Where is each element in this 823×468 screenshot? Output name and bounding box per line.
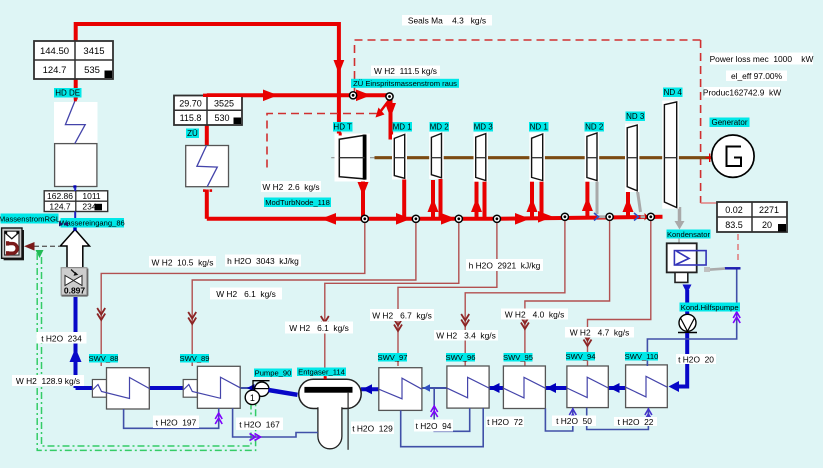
node junction reheat node1 [350, 92, 357, 99]
label Produc [703, 87, 781, 98]
label ZÜ [186, 129, 199, 139]
svg-text:t H2O 22: t H2O 22 [618, 417, 654, 427]
svg-text:SWV_94: SWV_94 [566, 352, 596, 361]
svg-text:Wassereingang_86: Wassereingang_86 [60, 219, 125, 228]
svg-text:ND 2: ND 2 [585, 123, 604, 132]
turbine ND 3 [625, 124, 639, 192]
label SWV_97 [378, 353, 408, 362]
svg-text:t H2O 50: t H2O 50 [556, 416, 592, 426]
arrow hot reheat 1 [263, 90, 278, 102]
label el_eff [726, 71, 787, 82]
svg-text:el_eff 97.00%: el_eff 97.00% [731, 71, 783, 81]
wire: vent line SWV_110 to condenser junction [647, 268, 736, 366]
turbine MD 3 [474, 132, 489, 182]
table condenser values [717, 202, 787, 232]
label W H2 111.5 [371, 66, 440, 77]
arrow fw into Entgaser right [362, 384, 372, 394]
svg-text:ZÜ Einspritsmassenstrom raus: ZÜ Einspritsmassenstrom raus [353, 79, 457, 88]
arrow gray ND4 exhaust [675, 221, 685, 230]
label Kondensator [667, 230, 711, 239]
arrow fw small at SWV_97 right [423, 384, 430, 391]
svg-text:Power loss mec 1000 kW: Power loss mec 1000 kW [710, 54, 814, 64]
arrow ND1 inlet [527, 198, 538, 212]
heater SWV_95 [503, 366, 545, 409]
svg-text:W H2 6.7 kg/s: W H2 6.7 kg/s [372, 311, 432, 321]
wire: extraction ND1 node to SWV_96 [465, 218, 565, 366]
wire: ND2 inlet riser [585, 179, 589, 217]
wire: feedwater riser thick blue [74, 297, 78, 388]
wire: green control loop outer [37, 253, 255, 450]
arrow extraction SWV_94 [584, 334, 592, 346]
turbine ND 4 [662, 101, 679, 209]
arrow blue condenser outlet [683, 285, 692, 294]
label MD 1 [393, 122, 413, 132]
node junction ND2 outlet [606, 213, 613, 220]
wire: gray label-to-condenser stub [678, 239, 680, 244]
svg-text:Generator: Generator [711, 118, 747, 127]
svg-text:t H2O 167: t H2O 167 [239, 419, 280, 429]
wire: junction blue segment right of condenser [725, 267, 741, 270]
arrow fw into SWV_110 left gap [610, 383, 620, 393]
label W H2 6.1 (Entgaser) [285, 322, 353, 334]
label W H2 10.5 [149, 256, 216, 268]
arrow vent line up [733, 312, 740, 323]
node turbine shaft gray axis [331, 157, 712, 159]
svg-text:530: 530 [214, 113, 229, 123]
arrow small green crossing [36, 250, 44, 258]
wire: dashed measurement line to controller [26, 245, 60, 247]
arrow extraction Entgaser [321, 316, 329, 328]
arrow HD T exhaust [358, 182, 369, 196]
label MD 3 [474, 122, 494, 132]
arrow injection spray [376, 108, 385, 118]
arrow small blue on gray ND2 [594, 213, 599, 221]
arrow extraction SWV_97 [394, 319, 402, 331]
node red dot MD 1 inlet [390, 132, 393, 135]
arrow extraction SWV_96 [461, 314, 469, 326]
arrow extraction SWV_95 [521, 317, 529, 329]
svg-text:t H2O 234: t H2O 234 [41, 333, 82, 343]
wire: MD3 inlet riser [475, 179, 479, 219]
svg-text:ND 4: ND 4 [664, 88, 683, 97]
label ZÜ Einspritsmassenstrom raus [351, 79, 459, 88]
svg-text:535: 535 [84, 65, 100, 76]
label SWV_110 [625, 352, 659, 361]
svg-text:W H2 4.7 kg/s: W H2 4.7 kg/s [570, 328, 630, 338]
svg-text:W H2 111.5 kg/s: W H2 111.5 kg/s [374, 66, 437, 76]
svg-text:124.7: 124.7 [43, 65, 67, 76]
label W H2 6.7 [370, 309, 434, 321]
wire: gray ND3 exhaust [638, 191, 646, 217]
arrow drain up into SWV_110 [645, 409, 652, 420]
label t H2O 167 [236, 418, 283, 431]
label HD T [333, 122, 353, 132]
svg-text:ModTurbNode_118: ModTurbNode_118 [265, 198, 330, 207]
svg-text:124.7: 124.7 [49, 202, 71, 212]
heater SWV_110 [626, 365, 668, 408]
wire: drain SWV_95 to SWV_94 [545, 408, 572, 431]
node junction ND1 outlet [561, 213, 568, 220]
arrow extraction SWV_89 [188, 312, 196, 324]
wire: extraction ND3 node to SWV_94 [588, 218, 651, 366]
svg-text:t H2O 129: t H2O 129 [352, 423, 393, 433]
svg-text:Pumpe_90: Pumpe_90 [255, 369, 292, 378]
controller icon MassenstromRGL [2, 228, 24, 260]
svg-text:0.897: 0.897 [64, 286, 86, 296]
svg-text:W H2 128.9 kg/s: W H2 128.9 kg/s [16, 376, 80, 386]
wire: injection water dashed [267, 114, 377, 169]
label SWV_94 [566, 352, 596, 361]
wire: blue link table to input arrow [74, 212, 76, 230]
turbine MD 1 [392, 133, 407, 180]
wire: extraction HDT node to SWV_88 [101, 220, 365, 366]
arrow ND2 inlet [582, 197, 593, 211]
wire: blue link boiler to table [74, 187, 76, 191]
node junction MD1 outlet [412, 215, 419, 222]
wire: extraction ND2 node to SWV_95 [525, 218, 610, 366]
pump Pumpe_90 [245, 381, 269, 405]
label t H2O 94 [414, 420, 453, 432]
label Power loss [710, 53, 814, 65]
heater SWV_94 [567, 366, 608, 408]
label t H2O 197 [153, 416, 199, 429]
label t H2O 234 [37, 332, 87, 344]
label SWV_96 [446, 353, 476, 362]
svg-text:W H2 6.1 kg/s: W H2 6.1 kg/s [289, 323, 349, 333]
label SWV_88 [89, 354, 119, 363]
svg-text:1: 1 [250, 393, 255, 403]
wire: ZÜ hot reheat line to MD1 [207, 93, 391, 97]
svg-text:SWV_110: SWV_110 [625, 352, 659, 361]
node junction MD3 outlet [493, 215, 500, 222]
svg-text:t H2O 20: t H2O 20 [678, 354, 714, 364]
measuring box 0.897 [61, 268, 87, 296]
arrow extraction SWV_88 [97, 308, 105, 320]
label Entgaser_114 [297, 368, 346, 377]
label W H2 128.9 [12, 375, 84, 386]
svg-text:Kondensator: Kondensator [667, 230, 711, 239]
svg-text:20: 20 [762, 220, 772, 230]
arrow MD2 inlet [428, 198, 439, 212]
node red dot HD T inlet [339, 133, 342, 136]
label t H2O 22 [614, 417, 657, 427]
condenser Kondensator [667, 243, 706, 282]
label SWV_89 [180, 354, 210, 363]
node junction HDT outlet [361, 215, 368, 222]
svg-text:2271: 2271 [759, 205, 779, 215]
wire: gray ND2 exhaust [597, 181, 606, 217]
wire: red stub table1 to HD DE boiler [74, 78, 78, 100]
wire: drain SWV_97 to SWV_96 [401, 408, 484, 447]
svg-text:SWV_96: SWV_96 [446, 353, 476, 362]
label Pumpe_90 [254, 369, 292, 378]
svg-text:HD T: HD T [333, 123, 352, 132]
wire: ND1 outlet drop [540, 180, 544, 219]
valve: tiny bowtie at measurement tap [59, 222, 68, 227]
svg-text:t H2O 72: t H2O 72 [487, 417, 523, 427]
svg-text:ND 3: ND 3 [626, 112, 645, 121]
svg-text:h H2O 2921 kJ/kg: h H2O 2921 kJ/kg [469, 261, 541, 271]
svg-text:MD 2: MD 2 [430, 123, 450, 132]
svg-text:SWV_88: SWV_88 [89, 354, 119, 363]
wire: extraction MD2 node to Entgaser [325, 220, 459, 377]
boundary input arrow Wassereingang [60, 227, 89, 267]
arrow fw into SWV_95 left [546, 383, 556, 393]
wire: feedwater thin segments [240, 387, 447, 389]
table feedwater values (162.86) [44, 191, 107, 212]
label ND 2 [585, 122, 605, 132]
wire: MD3 outlet drop [483, 180, 487, 219]
svg-text:W H2 3.4 kg/s: W H2 3.4 kg/s [436, 331, 496, 341]
wire: gray ND4 exhaust to condenser [678, 207, 682, 222]
heater SWV_97 [379, 368, 422, 411]
wire: drain SWV_94 to SWV_110 [587, 408, 649, 430]
wire: pink link to table3 [701, 202, 717, 204]
wire: MD2 inlet riser [431, 180, 435, 219]
label Kond.Hilfspumpe [680, 303, 741, 312]
svg-text:Produc162742.9 kW: Produc162742.9 kW [703, 88, 781, 98]
turbine ND 1 [529, 133, 545, 182]
turbine ND 2 [585, 132, 600, 182]
svg-text:Kond.Hilfspumpe: Kond.Hilfspumpe [681, 303, 739, 312]
wire: condensate to aux pump [685, 290, 689, 315]
svg-text:SWV_97: SWV_97 [378, 353, 408, 362]
arrow condensate into SWV_110 right [669, 381, 680, 392]
arrow on HD steam downcomer [334, 60, 345, 74]
svg-text:Entgaser_114: Entgaser_114 [298, 368, 345, 377]
wire: exhaust bus left section [207, 217, 497, 221]
label Generator [710, 118, 750, 128]
svg-text:W H2 2.6 kg/s: W H2 2.6 kg/s [262, 182, 319, 192]
svg-text:SWV_95: SWV_95 [503, 353, 533, 362]
label ModTurbNode_118 [264, 198, 331, 208]
svg-text:HD DE: HD DE [55, 89, 80, 98]
label Wassereingang_86 [60, 218, 125, 228]
generator U1 circle [712, 135, 754, 177]
wire: seal steam dashed (node1 up, across top, down right side) [355, 40, 701, 203]
label ND 1 [529, 122, 549, 132]
arrow drain up into feed line [431, 406, 438, 417]
arrow small blue on gray ND3 [634, 213, 639, 221]
arrow fw small at pump left [247, 384, 255, 392]
svg-text:W H2 4.0 kg/s: W H2 4.0 kg/s [505, 309, 565, 319]
svg-text:MassenstromRGL: MassenstromRGL [0, 215, 60, 224]
svg-text:0.02: 0.02 [725, 205, 743, 215]
label W H2 4.7 [565, 327, 634, 338]
heater SWV_89 [183, 366, 240, 408]
wire: ZÜ cold reheat from bus up into reheater [205, 190, 209, 219]
svg-text:29.70: 29.70 [179, 99, 202, 109]
arrow fw into SWV_96 left [490, 383, 500, 393]
wire: drain SWV_96 forward to feed line [434, 389, 470, 431]
label Seals Ma value [402, 15, 492, 26]
wire: MD2 outlet drop [439, 177, 443, 219]
arrow bus before MD2 node [441, 213, 456, 225]
svg-text:SWV_89: SWV_89 [180, 354, 210, 363]
svg-text:W H2 6.1 kg/s: W H2 6.1 kg/s [216, 289, 276, 299]
heater SWV_88 [92, 368, 149, 409]
arrow drain up into SWV_94 [569, 409, 576, 420]
label t H2O 20 [676, 354, 716, 364]
deaerator Entgaser_114 [299, 376, 362, 450]
wire: extraction MD1 node to SWV_89 [192, 220, 416, 366]
svg-text:t H2O 197: t H2O 197 [156, 417, 197, 427]
svg-text:3525: 3525 [214, 99, 234, 109]
svg-text:115.8: 115.8 [180, 113, 202, 123]
svg-text:ZÜ: ZÜ [187, 129, 198, 138]
node junction MD2 outlet [455, 215, 462, 222]
label ND 3 [626, 112, 646, 122]
wire: pump to deaerator thick blue diagonal [269, 390, 298, 395]
arrow MD1 inlet [385, 103, 396, 118]
label h H2O 2921 [466, 259, 543, 271]
label h H2O 3043 [225, 255, 301, 267]
svg-text:MD 3: MD 3 [474, 123, 494, 132]
arrow MD3 inlet [471, 198, 482, 212]
heater SWV_96 [447, 366, 489, 408]
label SWV_95 [503, 353, 533, 362]
node junction ND3 outlet [647, 213, 654, 220]
shaft brown segments [375, 156, 712, 159]
arrow bus toward reheater (left) [321, 213, 336, 225]
svg-text:Seals Ma 4.3 kg/s: Seals Ma 4.3 kg/s [408, 16, 486, 26]
arrow bus before ND1 node [538, 211, 553, 223]
wire: ND1 inlet riser [530, 179, 534, 219]
svg-text:MD 1: MD 1 [393, 123, 413, 132]
svg-text:ND 1: ND 1 [530, 123, 549, 132]
arrow hot reheat 2 [356, 90, 371, 102]
svg-text:t H2O 94: t H2O 94 [416, 421, 452, 431]
node junction reheat node2 [386, 93, 393, 100]
valve: small red bowtie before last node [645, 213, 649, 221]
red coupling cross at generator [706, 154, 715, 163]
wire: MD1 inlet drop [389, 95, 393, 139]
wire: extraction MD3 node to SWV_97 [398, 220, 497, 366]
arrow drain right to deaerator [250, 434, 261, 441]
arrow measurement into controller [24, 242, 35, 251]
label HD DE [54, 88, 82, 98]
wire: pink dashed below table3 [737, 234, 739, 262]
svg-text:144.50: 144.50 [40, 46, 69, 57]
label MD 2 [430, 122, 450, 132]
table ZÜ reheat values [174, 96, 242, 126]
arrow ND3 inlet [623, 198, 634, 212]
wire: HD T exhaust drop [361, 178, 365, 219]
svg-text:162.86: 162.86 [47, 191, 73, 201]
arrow bus before MD1 node [396, 213, 411, 225]
svg-text:83.5: 83.5 [725, 220, 743, 230]
label W H2 6.1 (SWV_89) [210, 288, 282, 300]
table HD DE live steam values [34, 41, 113, 79]
boiler HD DE symbol area [54, 98, 98, 188]
arrow bus before ND1 riser [515, 213, 530, 225]
label t H2O 129 [351, 422, 394, 435]
wire: gray connector condenser to junction [707, 269, 726, 270]
svg-text:h H2O 3043 kJ/kg: h H2O 3043 kJ/kg [227, 256, 299, 266]
wire: MD1 outlet drop [402, 177, 406, 219]
generator G glyph [727, 147, 742, 167]
wire: red overlay along ZÜ table top edge [203, 94, 243, 97]
reheater ZÜ box [186, 140, 229, 192]
wire: aux pump down and into SWV_110 [678, 333, 687, 387]
label t H2O 50 [552, 416, 596, 427]
wire: green control loop inner [42, 257, 252, 446]
arrow drain up into SWV_89 [215, 413, 222, 424]
wire: drain SWV_88 to SWV_89 [124, 408, 219, 428]
wire: HD live steam main (table1 up, across top, down to HD T) [76, 24, 339, 134]
wire: injection spray diagonal at node2 [379, 100, 390, 114]
label MassenstromRGL [0, 214, 60, 224]
arrow feedwater riser up [70, 348, 82, 362]
wire: exhaust bus right section [497, 217, 663, 219]
svg-text:1011: 1011 [82, 191, 101, 201]
turbine MD 2 [429, 132, 444, 179]
label W H2 4.0 [501, 309, 568, 320]
label ND 4 [663, 88, 683, 98]
label W H2 3.4 [434, 330, 498, 341]
wire: drain SWV_89 to deaerator tank [233, 408, 318, 437]
svg-text:W H2 10.5 kg/s: W H2 10.5 kg/s [152, 257, 214, 267]
turbine HD T [335, 134, 371, 182]
wire: ZÜ table to valve stub [205, 125, 209, 146]
svg-text:3415: 3415 [83, 46, 104, 57]
pump Kond.Hilfspumpe [678, 314, 697, 332]
wire: ND3 inlet riser [626, 188, 630, 217]
label t H2O 72 [486, 417, 524, 428]
wire: feedwater main line thick segments [76, 388, 626, 389]
label W H2 2.6 [261, 181, 321, 192]
